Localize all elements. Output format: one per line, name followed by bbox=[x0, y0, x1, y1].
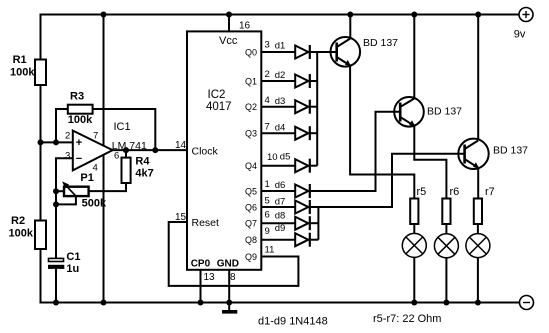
wire r7 to lamp L3 bbox=[477, 225, 479, 303]
wire IC2 reset pin15 loop from Q9 bbox=[169, 222, 299, 286]
svg-text:BD 137: BD 137 bbox=[427, 106, 462, 118]
wire op-amp pin7 to top rail bbox=[103, 15, 105, 147]
diode D3 bbox=[265, 95, 310, 114]
node junction P1 wiper bbox=[53, 201, 59, 207]
svg-text:r5: r5 bbox=[417, 186, 427, 198]
svg-text:Q8: Q8 bbox=[245, 235, 257, 245]
wire d6 cathode to transistor Q2 base bbox=[311, 112, 400, 191]
node junction pin7 top rail bbox=[101, 12, 107, 18]
svg-text:11: 11 bbox=[265, 245, 275, 256]
wire P1 wiper return bbox=[56, 196, 76, 204]
wire d1 cathode to transistor Q1 base bbox=[311, 51, 337, 53]
svg-text:9v: 9v bbox=[514, 29, 526, 41]
svg-text:d8: d8 bbox=[275, 210, 286, 221]
svg-text:r6: r6 bbox=[450, 186, 460, 198]
svg-text:Q2: Q2 bbox=[245, 102, 257, 112]
wire top supply rail bbox=[40, 14, 520, 16]
wire Q0 output row d1 bbox=[261, 51, 295, 53]
lamp L2 bbox=[434, 234, 458, 258]
svg-text:9: 9 bbox=[265, 226, 270, 237]
node junction lamp L1 ground rail bbox=[411, 300, 417, 306]
svg-text:15: 15 bbox=[175, 212, 187, 223]
wire P1 left lead bbox=[56, 190, 64, 192]
wire r6 to lamp L2 bbox=[445, 225, 447, 303]
svg-text:R1: R1 bbox=[13, 54, 27, 66]
svg-text:100k: 100k bbox=[10, 67, 35, 79]
node junction R3 to pin2 bbox=[53, 139, 59, 145]
wire Q8 output row d9 bbox=[261, 239, 295, 241]
svg-text:100k: 100k bbox=[9, 228, 34, 240]
svg-text:IC1: IC1 bbox=[114, 121, 131, 133]
wire IC2 GND pin8 to ground symbol bbox=[228, 270, 230, 310]
svg-text:d2: d2 bbox=[275, 70, 286, 81]
lamp L1 bbox=[402, 233, 426, 257]
wire d7 cathode row to transistor Q3 base bbox=[311, 154, 465, 207]
IC U2 IC2 4017 counter bbox=[175, 20, 274, 283]
wire Q2 output row d3 bbox=[261, 106, 295, 108]
diode D4 bbox=[265, 122, 310, 141]
wire transistor Q3 emitter to resistor r7 bbox=[477, 168, 479, 199]
svg-text:4: 4 bbox=[93, 163, 98, 174]
wire transistor Q2 collector to top rail bbox=[413, 15, 415, 98]
svg-text:Q9: Q9 bbox=[245, 252, 257, 262]
svg-text:C1: C1 bbox=[66, 251, 80, 263]
wire d2 cathode to bus bbox=[311, 80, 317, 82]
svg-text:r7: r7 bbox=[485, 186, 495, 198]
resistor r7 bbox=[474, 186, 495, 224]
node junction GND ground rail bbox=[226, 300, 232, 306]
svg-text:Q6: Q6 bbox=[245, 203, 257, 213]
node junction CP0 ground rail bbox=[198, 300, 204, 306]
op-amp U1 IC1 LM741 bbox=[65, 121, 147, 174]
diode D8 bbox=[265, 210, 310, 231]
wire Q4 output row d5 bbox=[261, 165, 295, 167]
svg-text:R3: R3 bbox=[70, 91, 84, 103]
wire IC2 CP0 pin13 to ground rail bbox=[200, 270, 202, 303]
svg-text:IC2: IC2 bbox=[208, 89, 226, 101]
svg-text:1u: 1u bbox=[66, 263, 79, 275]
svg-text:4: 4 bbox=[265, 95, 270, 106]
resistor R2 bbox=[9, 215, 47, 249]
svg-text:d9: d9 bbox=[275, 223, 286, 234]
wire Q7 output row d8 bbox=[261, 222, 295, 224]
svg-text:Q7: Q7 bbox=[245, 219, 257, 229]
transistor Q3 BD137 bbox=[458, 139, 528, 169]
wire transistor Q3 collector to top rail bbox=[477, 15, 479, 140]
svg-text:Clock: Clock bbox=[192, 146, 219, 158]
wire left rail vertical bbox=[40, 14, 42, 304]
diode D9 bbox=[265, 223, 310, 247]
wire R4 top lead bbox=[125, 150, 127, 158]
svg-text:Vcc: Vcc bbox=[219, 35, 238, 47]
wire R3 left lead down to pin2 node bbox=[56, 109, 68, 142]
node junction lamp L3 ground rail bbox=[475, 300, 481, 306]
svg-text:Q3: Q3 bbox=[245, 129, 257, 139]
svg-text:r5-r7: 22 Ohm: r5-r7: 22 Ohm bbox=[373, 313, 441, 325]
wire R3 right lead down to output node bbox=[93, 109, 156, 150]
ground symbol at pin8 bbox=[222, 310, 237, 314]
battery negative terminal bbox=[520, 296, 534, 310]
svg-text:14: 14 bbox=[175, 140, 187, 151]
svg-text:8: 8 bbox=[230, 272, 236, 283]
wire bus d7-d9 vertical bbox=[317, 207, 319, 240]
svg-text:10: 10 bbox=[267, 152, 278, 163]
wire d9 cathode to bus bbox=[311, 239, 318, 241]
wire C1 bottom lead to ground rail bbox=[55, 268, 57, 303]
node junction R3 feedback output bbox=[152, 147, 158, 153]
wire r5 to lamp L1 bbox=[413, 225, 415, 303]
wire op-amp pin3 input bbox=[56, 158, 73, 258]
wire transistor Q2 emitter to resistor r6 bbox=[414, 126, 446, 199]
transistor Q1 BD137 bbox=[331, 37, 399, 67]
svg-text:5: 5 bbox=[265, 196, 270, 207]
wire Q6 output row d7 bbox=[261, 206, 295, 208]
svg-text:Q0: Q0 bbox=[245, 48, 257, 58]
node junction pin2 divider bbox=[38, 139, 44, 145]
transistor Q2 BD137 bbox=[394, 97, 462, 127]
svg-text:100k: 100k bbox=[68, 114, 93, 126]
svg-text:BD 137: BD 137 bbox=[363, 37, 398, 49]
node junction Q3 collector top rail bbox=[475, 12, 481, 18]
node junction Vcc top rail bbox=[226, 12, 232, 18]
wire d3 cathode to bus bbox=[311, 106, 317, 108]
wire op-amp pin4 to bottom rail bbox=[103, 154, 105, 303]
svg-text:1: 1 bbox=[265, 179, 270, 190]
node junction lamp L2 ground rail bbox=[443, 300, 449, 306]
wire transistor Q1 emitter to resistor r5 bbox=[350, 66, 414, 199]
svg-text:Q5: Q5 bbox=[245, 187, 257, 197]
svg-text:Reset: Reset bbox=[192, 217, 220, 229]
svg-text:4k7: 4k7 bbox=[135, 168, 153, 180]
wire transistor Q1 collector to top rail bbox=[349, 15, 351, 39]
svg-text:d3: d3 bbox=[275, 96, 286, 107]
svg-text:d1-d9 1N4148: d1-d9 1N4148 bbox=[258, 316, 328, 328]
capacitor C1 bbox=[49, 251, 81, 275]
lamp L3 bbox=[466, 234, 490, 258]
diode D7 bbox=[265, 196, 310, 214]
wire bottom ground rail bbox=[41, 302, 520, 304]
node junction op-amp output R4 bbox=[123, 147, 129, 153]
node junction pin4 ground rail bbox=[101, 300, 107, 306]
svg-text:3: 3 bbox=[265, 40, 270, 51]
svg-text:+: + bbox=[76, 137, 82, 149]
svg-text:d5: d5 bbox=[280, 151, 291, 162]
svg-text:6: 6 bbox=[265, 210, 270, 221]
svg-text:3: 3 bbox=[65, 151, 70, 162]
resistor R1 bbox=[10, 54, 46, 85]
wire d4 cathode to bus bbox=[311, 132, 317, 134]
wire IC2 Vcc pin16 to top rail bbox=[228, 15, 230, 32]
svg-text:16: 16 bbox=[239, 20, 251, 31]
svg-text:4017: 4017 bbox=[206, 101, 232, 113]
svg-text:6: 6 bbox=[114, 151, 119, 162]
resistor r6 bbox=[442, 186, 459, 224]
wire d5 cathode to bus bbox=[311, 165, 317, 167]
resistor r5 bbox=[410, 186, 426, 224]
svg-text:500k: 500k bbox=[82, 198, 107, 210]
node junction P1 left bbox=[53, 188, 59, 194]
svg-text:2: 2 bbox=[65, 131, 70, 142]
svg-text:7: 7 bbox=[265, 122, 270, 133]
svg-text:CP0: CP0 bbox=[191, 259, 211, 270]
diode D1 bbox=[265, 40, 310, 60]
svg-text:GND: GND bbox=[217, 259, 239, 270]
wire d8 cathode to bus bbox=[311, 222, 318, 224]
potentiometer P1 bbox=[62, 172, 107, 210]
node junction C1 ground rail bbox=[53, 300, 59, 306]
svg-text:−: − bbox=[76, 153, 82, 165]
svg-text:LM 741: LM 741 bbox=[112, 140, 147, 152]
wire R4 bottom lead to P1 bbox=[89, 183, 126, 191]
svg-text:d4: d4 bbox=[275, 122, 286, 133]
svg-text:P1: P1 bbox=[80, 172, 93, 184]
svg-text:d1: d1 bbox=[275, 40, 286, 51]
wire Q1 output row d2 bbox=[261, 80, 295, 82]
node junction Q1 collector top rail bbox=[347, 12, 353, 18]
wire Q3 output row d4 bbox=[261, 132, 295, 134]
svg-text:R2: R2 bbox=[11, 215, 25, 227]
battery positive terminal bbox=[514, 8, 533, 41]
svg-text:d7: d7 bbox=[275, 196, 286, 207]
wire bus d1-d5 vertical bbox=[316, 52, 318, 166]
diode D5 bbox=[267, 151, 310, 172]
svg-text:Q1: Q1 bbox=[245, 77, 257, 87]
svg-text:Q4: Q4 bbox=[245, 161, 257, 171]
svg-text:2: 2 bbox=[265, 69, 270, 80]
node junction Q2 collector top rail bbox=[411, 12, 417, 18]
svg-text:d6: d6 bbox=[275, 180, 286, 191]
diode D2 bbox=[265, 69, 310, 88]
diode D6 bbox=[265, 179, 310, 198]
wire op-amp output to IC2 clock pin 14 bbox=[113, 149, 187, 151]
wire Q5 output row d6 bbox=[261, 190, 295, 192]
svg-text:7: 7 bbox=[93, 131, 98, 142]
svg-text:13: 13 bbox=[204, 272, 216, 283]
svg-text:R4: R4 bbox=[135, 156, 150, 168]
resistor R4 bbox=[122, 156, 154, 184]
wire op-amp pin2 input from divider bbox=[41, 141, 73, 143]
svg-text:BD 137: BD 137 bbox=[493, 145, 528, 157]
resistor R3 bbox=[68, 91, 93, 127]
